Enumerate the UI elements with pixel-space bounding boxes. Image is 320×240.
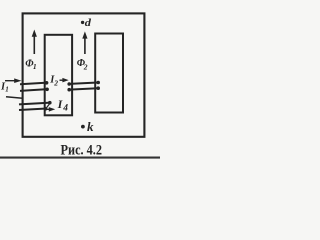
label phi2 xyxy=(77,58,88,72)
flux arrow phi2 xyxy=(82,31,87,54)
bottom rule xyxy=(0,157,160,159)
node d xyxy=(81,17,92,29)
current I2 arrow xyxy=(60,78,69,83)
svg-text:2: 2 xyxy=(83,62,88,71)
I1 return wire xyxy=(6,97,23,98)
svg-text:1: 1 xyxy=(5,86,9,94)
middle leg winding turn 2 xyxy=(67,86,100,91)
left leg winding turn 4 xyxy=(19,107,47,111)
svg-text:1: 1 xyxy=(33,62,37,71)
label I2 xyxy=(49,74,58,87)
flux arrow phi1 xyxy=(32,30,37,55)
svg-text:Рис. 4.2: Рис. 4.2 xyxy=(61,143,103,159)
current I1 lead wire with arrow xyxy=(5,78,22,83)
left leg winding turn 1 xyxy=(20,81,48,85)
current I4 arrow xyxy=(46,107,56,112)
label I1 xyxy=(0,81,9,93)
svg-text:k: k xyxy=(87,119,94,134)
label phi1 xyxy=(25,58,36,71)
right window xyxy=(95,34,123,113)
left leg winding turn 2 xyxy=(20,88,49,92)
svg-text:d: d xyxy=(85,17,92,29)
node k xyxy=(81,119,94,134)
svg-text:4: 4 xyxy=(62,104,68,114)
middle leg winding turn 1 xyxy=(67,81,100,86)
label I4 xyxy=(57,97,69,114)
svg-text:2: 2 xyxy=(53,79,58,88)
core outline (outer rectangle) xyxy=(23,13,145,136)
left window xyxy=(45,35,72,116)
left leg winding turn 3 xyxy=(19,101,52,108)
